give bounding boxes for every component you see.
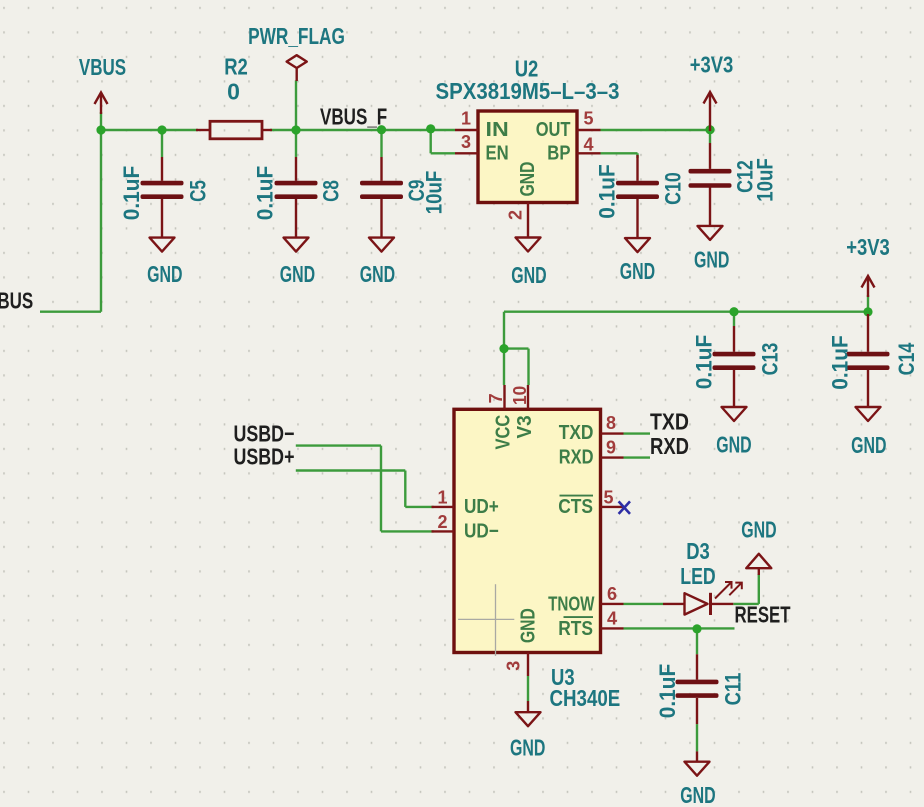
svg-text:VBUS: VBUS <box>0 288 33 314</box>
svg-text:1: 1 <box>461 109 471 129</box>
wire RXD <box>624 456 651 458</box>
svg-text:0.1uF: 0.1uF <box>119 166 144 221</box>
capacitor C8 plates <box>275 181 318 199</box>
capacitor C5 plates <box>141 181 184 199</box>
capacitor C5 leads <box>161 157 163 238</box>
svg-text:6: 6 <box>607 584 617 604</box>
ground below C9 <box>369 238 394 252</box>
svg-text:RESET: RESET <box>735 602 791 628</box>
ground below C10 <box>625 238 650 252</box>
wire RTS to C11 <box>696 628 698 654</box>
svg-text:EN: EN <box>486 142 509 164</box>
U2 pin 5 OUT lead <box>577 129 601 131</box>
wire USBD+ to U3 pin 1 <box>296 471 434 507</box>
svg-text:GND: GND <box>510 735 545 761</box>
junction C5 tap <box>157 125 166 134</box>
svg-text:RTS: RTS <box>558 618 593 640</box>
wire C12 stub <box>709 130 711 143</box>
U3 pin name RTS with overline <box>558 617 593 640</box>
capacitor C12 leads <box>709 143 711 226</box>
U3 pin 6 TNOW lead <box>601 603 624 605</box>
capacitor C14 plates <box>847 352 890 370</box>
svg-text:PWR_FLAG: PWR_FLAG <box>248 23 345 49</box>
wire TXD <box>624 432 651 434</box>
svg-text:C11: C11 <box>721 673 746 706</box>
svg-text:4: 4 <box>607 609 617 629</box>
svg-text:CTS: CTS <box>558 496 593 518</box>
svg-text:8: 8 <box>606 413 616 433</box>
svg-text:C13: C13 <box>758 343 783 376</box>
power symbol VBUS arrow <box>95 93 108 115</box>
svg-text:4: 4 <box>583 135 593 155</box>
wire U3 pin 3 to GND <box>527 676 529 701</box>
junction C14 / +3V3 tap <box>863 307 872 316</box>
svg-text:R2: R2 <box>224 54 248 80</box>
svg-text:GND: GND <box>851 432 886 458</box>
U3 pin 10 V3 lead <box>527 385 529 409</box>
U3 pin 1 UD+ lead <box>432 506 455 508</box>
svg-text:CH340E: CH340E <box>550 685 621 711</box>
capacitor C13 plates <box>713 352 756 370</box>
svg-text:GND: GND <box>680 782 715 807</box>
svg-text:2: 2 <box>506 210 526 220</box>
svg-text:SPX3819M5–L–3–3: SPX3819M5–L–3–3 <box>436 78 620 104</box>
ground above LED (apex up) <box>746 554 771 575</box>
svg-text:10: 10 <box>510 386 530 405</box>
svg-text:RXD: RXD <box>650 433 689 459</box>
junction VCC branch <box>499 344 508 353</box>
svg-text:TXD: TXD <box>650 409 689 435</box>
wire TNOW to LED <box>624 603 664 605</box>
wire +3V3 arrow stub <box>867 295 869 312</box>
svg-text:GND: GND <box>360 261 395 287</box>
svg-text:+3V3: +3V3 <box>690 52 734 78</box>
svg-text:7: 7 <box>486 393 506 403</box>
junction C8 / PWR_FLAG tap <box>291 125 300 134</box>
svg-text:5: 5 <box>603 488 613 508</box>
wire C9 stub <box>380 130 382 157</box>
junction U2 OUT / +3V3 / C12 <box>705 125 714 134</box>
capacitor C12 plates <box>689 169 732 188</box>
wire main VBUS horizontal to R2 <box>101 129 198 131</box>
junction VBUS corner <box>96 125 105 134</box>
svg-text:0.1uF: 0.1uF <box>595 164 620 219</box>
svg-text:GND: GND <box>517 162 539 197</box>
svg-text:UD−: UD− <box>464 521 499 543</box>
svg-text:GND: GND <box>620 258 655 284</box>
U2 pin 2 GND lead <box>527 203 529 238</box>
ground below C8 <box>284 238 309 252</box>
svg-text:GND: GND <box>280 261 315 287</box>
wire branch to V3 pin 10 <box>504 349 529 385</box>
capacitor C14 leads <box>867 314 869 407</box>
ground below C14 <box>856 407 881 421</box>
svg-text:9: 9 <box>606 438 616 458</box>
wire C5 stub <box>161 130 163 157</box>
svg-text:C5: C5 <box>186 180 211 202</box>
wire C13 stub <box>733 312 735 326</box>
U2 pin 3 EN lead <box>455 152 478 154</box>
svg-text:0: 0 <box>227 79 240 105</box>
ground below U3 <box>516 701 541 726</box>
svg-text:V3: V3 <box>514 415 536 438</box>
capacitor C10 plates <box>616 181 659 199</box>
svg-text:GND: GND <box>147 261 182 287</box>
power symbol +3V3 arrow (right) <box>862 276 875 297</box>
svg-text:0.1uF: 0.1uF <box>828 335 853 390</box>
wire R2 to U2 pin 1 <box>270 129 455 131</box>
svg-text:GND: GND <box>511 262 546 288</box>
capacitor C11 plates <box>676 680 719 698</box>
svg-text:USBD+: USBD+ <box>234 444 295 470</box>
svg-text:IN: IN <box>486 119 509 141</box>
svg-text:3: 3 <box>461 132 471 152</box>
resistor R2 body <box>196 121 272 139</box>
U3 pin name CTS with overline <box>558 496 593 518</box>
wire C8 stub <box>295 130 297 157</box>
capacitor C9 leads <box>380 157 382 238</box>
U3 pin 8 TXD lead <box>601 432 624 434</box>
ground below C13 <box>722 407 747 421</box>
op-amp U3 body CH340E <box>454 409 601 652</box>
svg-text:TXD: TXD <box>559 422 594 444</box>
U3 pin 2 UD- lead <box>432 530 455 532</box>
svg-text:OUT: OUT <box>536 119 571 141</box>
U3 pin 7 VCC lead <box>503 385 505 409</box>
svg-text:0.1uF: 0.1uF <box>253 166 278 221</box>
U2 pin 4 BP lead <box>577 152 601 154</box>
svg-text:0.1uF: 0.1uF <box>655 664 680 719</box>
svg-text:10uF: 10uF <box>753 158 778 202</box>
U3 pin 9 RXD lead <box>601 456 624 458</box>
capacitor C10 leads <box>636 155 638 238</box>
power symbol +3V3 arrow (top) <box>704 92 717 131</box>
svg-text:BP: BP <box>547 142 570 164</box>
svg-text:+3V3: +3V3 <box>846 234 890 260</box>
U3 pin 5 CTS lead <box>601 506 624 508</box>
ground below C11 <box>685 751 710 775</box>
svg-text:0.1uF: 0.1uF <box>692 335 717 390</box>
ground below C5 <box>150 238 175 252</box>
wire USBD- to U3 pin 2 <box>296 446 434 532</box>
U3 pin 4 RTS lead <box>601 627 624 629</box>
svg-text:1: 1 <box>437 488 447 508</box>
capacitor C13 leads <box>733 326 735 407</box>
capacitor C9 plates <box>360 181 403 199</box>
U3 pin 3 GND lead <box>527 653 529 677</box>
wire RTS to RESET <box>624 627 735 629</box>
wire branch to U2 pin 3 <box>431 130 455 153</box>
power flag PWR_FLAG <box>287 55 307 81</box>
op-amp U2 body SPX3819M5-L-3-3 <box>478 111 577 203</box>
junction U2 pin branch <box>426 124 435 133</box>
svg-text:5: 5 <box>583 109 593 129</box>
ground below C12 <box>698 226 723 240</box>
capacitor C8 leads <box>295 157 297 238</box>
svg-text:C10: C10 <box>661 172 686 205</box>
svg-text:2: 2 <box>437 512 447 532</box>
wire BP to C10 <box>601 153 638 158</box>
ground below U2 <box>516 238 541 252</box>
wire +3V3 rail lower <box>504 312 868 385</box>
capacitor C11 leads <box>696 654 698 724</box>
svg-text:C14: C14 <box>894 342 919 375</box>
svg-text:GND: GND <box>694 247 729 273</box>
svg-text:3: 3 <box>504 661 524 671</box>
svg-text:UD+: UD+ <box>464 496 499 518</box>
svg-text:VCC: VCC <box>493 415 515 450</box>
wire C11 to GND <box>696 724 698 751</box>
svg-text:D3: D3 <box>686 538 710 564</box>
diode D3 LED <box>663 593 733 615</box>
junction C13 tap <box>729 307 738 316</box>
wire LED cathode to GND <box>733 574 759 604</box>
wire VBUS arrow stub <box>100 112 102 130</box>
svg-text:GND: GND <box>518 608 540 643</box>
U3 anchor crosshair <box>458 584 514 656</box>
junction C9 tap <box>377 125 386 134</box>
svg-text:RXD: RXD <box>559 447 594 469</box>
svg-text:10uF: 10uF <box>422 171 447 215</box>
U2 pin 1 IN lead <box>455 129 478 131</box>
wire VBUS left rail to junction <box>40 130 101 312</box>
wire U2 OUT to +3V3 <box>601 129 711 131</box>
svg-text:VBUS_F: VBUS_F <box>320 104 387 130</box>
svg-text:GND: GND <box>741 517 776 543</box>
svg-text:TNOW: TNOW <box>548 593 594 615</box>
D3 emission arrows <box>715 582 742 599</box>
svg-text:VBUS: VBUS <box>79 54 126 80</box>
junction RTS / C11 <box>692 624 701 633</box>
svg-text:C8: C8 <box>319 180 344 202</box>
no-connect X on CTS pin <box>619 501 630 514</box>
wire PWR_FLAG drop <box>295 80 297 130</box>
svg-text:GND: GND <box>716 432 751 458</box>
svg-text:LED: LED <box>680 563 715 589</box>
